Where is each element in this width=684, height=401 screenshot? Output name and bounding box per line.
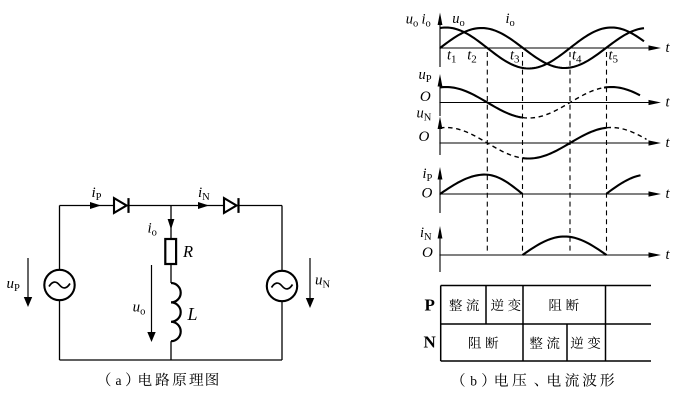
svg-text:iP: iP	[92, 185, 102, 203]
svg-text:io: io	[506, 11, 515, 29]
svg-text:t: t	[666, 186, 671, 202]
svg-text:io: io	[422, 12, 431, 30]
svg-text:uP: uP	[7, 276, 21, 294]
svg-text:a: a	[116, 373, 122, 388]
svg-text:uN: uN	[315, 273, 331, 291]
svg-text:b: b	[470, 373, 477, 388]
svg-text:uP: uP	[419, 67, 432, 85]
svg-text:uN: uN	[417, 106, 432, 124]
svg-text:t4: t4	[572, 48, 582, 66]
svg-text:R: R	[182, 242, 193, 261]
svg-text:iN: iN	[198, 185, 210, 203]
svg-text:iP: iP	[423, 166, 433, 184]
svg-text:t2: t2	[467, 48, 477, 66]
svg-text:t1: t1	[447, 48, 457, 66]
svg-text:t5: t5	[609, 48, 619, 66]
svg-text:N: N	[424, 333, 437, 352]
svg-text:iN: iN	[420, 225, 432, 243]
svg-text:t: t	[666, 40, 671, 56]
svg-text:t: t	[666, 135, 671, 151]
svg-text:t3: t3	[510, 48, 520, 66]
svg-text:io: io	[148, 221, 157, 239]
svg-text:t: t	[666, 95, 671, 111]
svg-text:P: P	[425, 295, 435, 314]
svg-text:uo: uo	[452, 11, 465, 29]
svg-text:O: O	[420, 89, 431, 105]
svg-text:O: O	[422, 245, 433, 261]
svg-text:O: O	[419, 129, 430, 145]
svg-text:L: L	[187, 304, 198, 324]
svg-text:O: O	[422, 186, 433, 202]
svg-text:uo: uo	[406, 12, 419, 30]
svg-text:t: t	[666, 247, 671, 263]
svg-text:uo: uo	[133, 299, 146, 317]
